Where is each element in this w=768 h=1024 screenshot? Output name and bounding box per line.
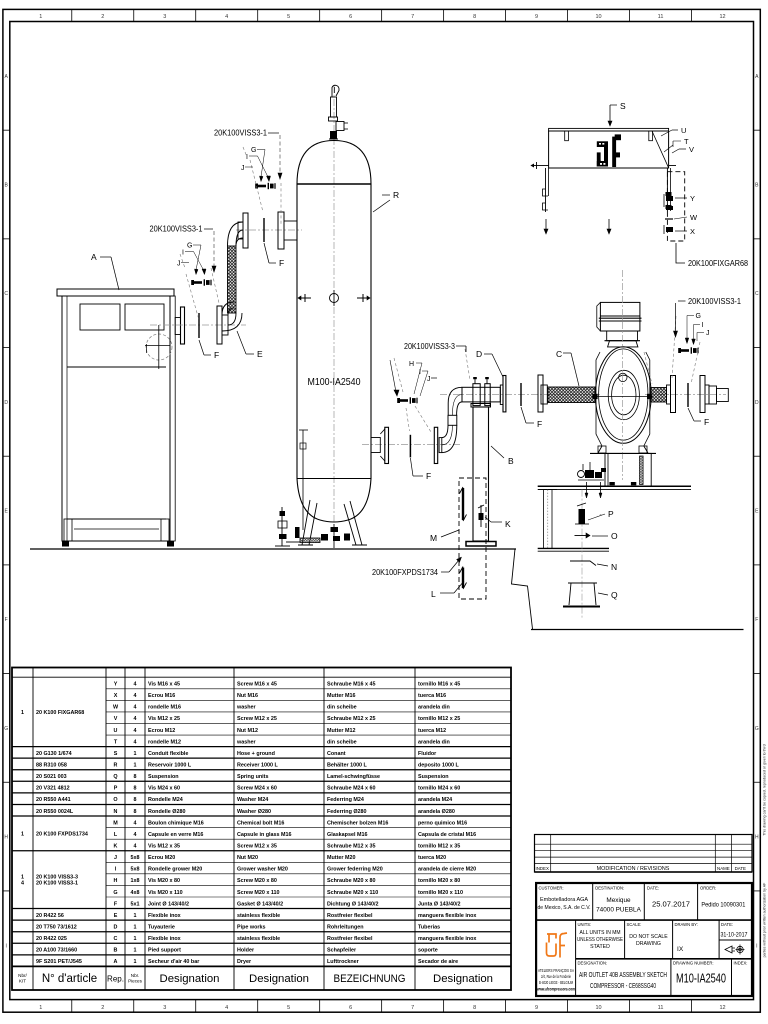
svg-text:Screw M20 x 110: Screw M20 x 110 <box>237 890 280 896</box>
svg-text:1: 1 <box>39 1005 42 1011</box>
svg-text:4: 4 <box>134 682 137 688</box>
svg-text:C: C <box>755 291 759 297</box>
svg-text:Suspension: Suspension <box>148 774 179 780</box>
svg-text:Nut M12: Nut M12 <box>237 728 258 734</box>
svg-text:Secador de aire: Secador de aire <box>418 959 458 965</box>
svg-text:tornillo M20 x 110: tornillo M20 x 110 <box>418 890 463 896</box>
svg-text:I: I <box>182 250 184 257</box>
svg-text:20 R422 025: 20 R422 025 <box>36 936 67 942</box>
S-pipe elbows <box>442 425 457 452</box>
panel side extension lines <box>534 165 549 167</box>
svg-text:Conant: Conant <box>327 751 346 757</box>
svg-text:8: 8 <box>134 786 137 792</box>
svg-text:H: H <box>114 878 118 884</box>
dashed detail box 20K100FXPDS1734 <box>459 478 486 599</box>
svg-text:Schapfeiler: Schapfeiler <box>327 948 357 954</box>
svg-text:B-4020 LIEGE - BELGIUM: B-4020 LIEGE - BELGIUM <box>539 980 573 985</box>
svg-text:Gasket Ø 143/40/2: Gasket Ø 143/40/2 <box>237 901 283 907</box>
svg-text:4: 4 <box>134 705 137 711</box>
svg-text:C: C <box>4 291 8 297</box>
svg-text:Grower washer M20: Grower washer M20 <box>237 867 288 873</box>
svg-text:G: G <box>4 726 8 732</box>
svg-text:washer: washer <box>236 705 256 711</box>
svg-text:SCALE:: SCALE: <box>627 922 642 927</box>
svg-text:Washer M24: Washer M24 <box>237 797 268 803</box>
svg-text:4: 4 <box>134 716 137 722</box>
svg-text:parties without prior written: parties without prior written authorizat… <box>762 882 766 958</box>
svg-text:Screw M24 x 60: Screw M24 x 60 <box>237 786 277 792</box>
svg-text:5x8: 5x8 <box>131 855 140 861</box>
svg-text:1: 1 <box>134 936 137 942</box>
svg-text:Holder: Holder <box>237 948 255 954</box>
svg-text:Capsula de cristal M16: Capsula de cristal M16 <box>418 832 476 838</box>
svg-text:74000 PUEBLA: 74000 PUEBLA <box>596 907 642 914</box>
roof panel hanger tabs <box>565 131 569 141</box>
svg-text:B: B <box>508 456 514 466</box>
svg-text:A: A <box>114 959 118 965</box>
svg-text:Receiver 1000 L: Receiver 1000 L <box>237 763 278 769</box>
svg-text:MODIFICATION / REVISIONS: MODIFICATION / REVISIONS <box>597 866 670 872</box>
svg-text:P: P <box>608 509 614 519</box>
discharge flange disc <box>667 385 671 404</box>
svg-text:J: J <box>114 855 117 861</box>
compressor casing outer ellipse <box>595 347 651 444</box>
svg-text:DRAWN BY:: DRAWN BY: <box>675 922 698 927</box>
svg-text:manguera flexible inox: manguera flexible inox <box>418 936 476 942</box>
axis compressor suction <box>440 394 600 396</box>
svg-text:W: W <box>690 213 698 222</box>
compressor vertical centre line <box>622 270 624 480</box>
svg-text:C: C <box>556 349 562 359</box>
svg-text:BEZEICHNUNG: BEZEICHNUNG <box>334 973 406 985</box>
compressor adapter <box>608 341 638 347</box>
svg-text:J: J <box>427 376 431 383</box>
bolt set near tank (VISS3-1) <box>258 185 266 188</box>
tank R shoulder weld line <box>297 183 371 185</box>
ground break step <box>512 549 533 629</box>
svg-text:X: X <box>114 693 118 699</box>
svg-text:N: N <box>114 809 118 815</box>
svg-text:Mutter M20: Mutter M20 <box>327 855 355 861</box>
parts list table <box>12 668 511 991</box>
svg-text:ORDER:: ORDER: <box>700 886 716 891</box>
svg-text:Vis M20 x 80: Vis M20 x 80 <box>148 878 180 884</box>
svg-text:C: C <box>114 936 118 942</box>
tank drain left standpipe <box>281 507 283 546</box>
svg-text:Pipe works: Pipe works <box>237 924 265 930</box>
svg-text:DRAWING NUMBER:: DRAWING NUMBER: <box>673 961 714 966</box>
svg-text:Screw M16 x 45: Screw M16 x 45 <box>237 682 277 688</box>
tank left nozzle flange <box>278 212 284 249</box>
designation cell <box>670 959 672 996</box>
svg-text:Pieces: Pieces <box>128 979 142 984</box>
tank right leg <box>344 501 362 545</box>
svg-text:DATE:: DATE: <box>647 886 659 891</box>
svg-text:11: 11 <box>658 14 664 20</box>
svg-text:Mutter M16: Mutter M16 <box>327 693 355 699</box>
svg-text:4: 4 <box>225 14 228 20</box>
svg-text:This drawing can't be copied,: This drawing can't be copied, reproduced… <box>762 744 766 835</box>
svg-text:Rostfreier flexibel: Rostfreier flexibel <box>327 936 373 942</box>
oil pump unit <box>585 470 594 478</box>
svg-text:6: 6 <box>349 14 352 20</box>
svg-text:UNITS:: UNITS: <box>578 922 592 927</box>
svg-text:www.afcompressors.com: www.afcompressors.com <box>536 987 575 992</box>
safety valve on tank top <box>331 97 337 117</box>
svg-text:10: 10 <box>596 14 602 20</box>
svg-text:tornillo M16 x 45: tornillo M16 x 45 <box>418 682 460 688</box>
svg-text:M: M <box>430 533 437 543</box>
svg-text:Vis M12 x 25: Vis M12 x 25 <box>148 716 180 722</box>
svg-text:DO NOT SCALE: DO NOT SCALE <box>629 934 668 940</box>
svg-text:1: 1 <box>21 831 24 837</box>
svg-text:V: V <box>689 145 694 154</box>
dashed leaders pipe D boltset <box>394 358 403 392</box>
title block frame <box>536 883 752 996</box>
svg-text:12: 12 <box>719 1005 725 1011</box>
svg-text:1: 1 <box>134 763 137 769</box>
svg-text:DESIGNATION:: DESIGNATION: <box>578 961 608 966</box>
svg-text:F: F <box>537 419 542 429</box>
elbow at hose E bottom <box>222 302 234 315</box>
svg-text:M100-IA2540: M100-IA2540 <box>308 376 361 388</box>
svg-text:din scheibe: din scheibe <box>327 705 357 711</box>
svg-text:Nbr/: Nbr/ <box>18 973 27 978</box>
tank right nozzle <box>371 438 380 453</box>
svg-text:rondelle M12: rondelle M12 <box>148 739 181 745</box>
svg-text:G: G <box>696 313 701 320</box>
svg-text:stainless flexible: stainless flexible <box>237 913 280 919</box>
svg-text:9F S201 PET/J545: 9F S201 PET/J545 <box>36 959 82 965</box>
svg-text:G: G <box>755 726 759 732</box>
pillar B top plate <box>471 404 491 408</box>
svg-text:1: 1 <box>39 14 42 20</box>
compressor gland details <box>592 394 597 399</box>
svg-text:20 K100 FXPDS1734: 20 K100 FXPDS1734 <box>36 831 88 837</box>
svg-text:5: 5 <box>287 1005 290 1011</box>
svg-text:Schraube M24 x 60: Schraube M24 x 60 <box>327 786 376 792</box>
svg-text:Y: Y <box>114 682 118 688</box>
svg-text:ALL UNITS IN MM: ALL UNITS IN MM <box>580 930 621 936</box>
svg-text:20 V321 4812: 20 V321 4812 <box>36 786 70 792</box>
svg-text:Boulon chimique M16: Boulon chimique M16 <box>148 820 204 826</box>
svg-text:B: B <box>114 948 118 954</box>
svg-text:rondelle M16: rondelle M16 <box>148 705 181 711</box>
svg-text:8: 8 <box>134 774 137 780</box>
left braided hose to compressor <box>547 386 549 388</box>
panel right leg <box>666 168 668 212</box>
svg-text:4: 4 <box>21 881 24 887</box>
dryer cabinet feet <box>62 541 69 547</box>
svg-text:H: H <box>409 361 414 368</box>
dryer cabinet windows <box>80 304 120 330</box>
svg-text:Ecrou M20: Ecrou M20 <box>148 855 175 861</box>
svg-text:31-10-2017: 31-10-2017 <box>721 933 749 939</box>
svg-text:8: 8 <box>473 14 476 20</box>
svg-text:20K100VISS3-1: 20K100VISS3-1 <box>150 225 204 234</box>
svg-text:8: 8 <box>473 1005 476 1011</box>
svg-text:Capsule en verre M16: Capsule en verre M16 <box>148 832 203 838</box>
svg-text:Tuyauterie: Tuyauterie <box>148 924 175 930</box>
svg-text:IX: IX <box>677 946 684 953</box>
svg-text:20 T750 73/1612: 20 T750 73/1612 <box>36 924 77 930</box>
AF logo on panel <box>597 141 608 147</box>
discharge end cap <box>709 386 717 404</box>
svg-text:20 K100 FIXGAR68: 20 K100 FIXGAR68 <box>36 710 84 716</box>
axis cabinet outlet <box>150 324 246 326</box>
svg-text:Schraube M20 x 110: Schraube M20 x 110 <box>327 890 378 896</box>
svg-text:4: 4 <box>134 843 137 849</box>
dryer cabinet A body <box>57 289 174 296</box>
svg-text:20K100FXPDS1734: 20K100FXPDS1734 <box>372 568 438 577</box>
svg-text:Lamel-schwingfüsse: Lamel-schwingfüsse <box>327 774 380 780</box>
svg-text:stainless flexible: stainless flexible <box>237 936 280 942</box>
svg-text:Q: Q <box>611 590 618 600</box>
svg-text:88 R310 058: 88 R310 058 <box>36 763 67 769</box>
svg-text:H: H <box>4 835 8 841</box>
svg-text:M: M <box>113 820 118 826</box>
svg-text:E: E <box>257 349 263 359</box>
svg-text:Designation: Designation <box>433 973 493 985</box>
lower ground line <box>531 629 744 631</box>
support H column <box>538 489 557 491</box>
svg-text:20 R422 56: 20 R422 56 <box>36 913 64 919</box>
svg-text:Rondelle M24: Rondelle M24 <box>148 797 183 803</box>
svg-text:Chemischer bolzen M16: Chemischer bolzen M16 <box>327 820 388 826</box>
svg-text:1: 1 <box>134 913 137 919</box>
svg-text:DRAWING: DRAWING <box>636 941 661 947</box>
svg-text:Screw M12 x 25: Screw M12 x 25 <box>237 716 277 722</box>
svg-text:Pied support: Pied support <box>148 948 181 954</box>
axis compressor discharge <box>645 394 726 396</box>
svg-text:20K100VISS3-1: 20K100VISS3-1 <box>214 129 268 138</box>
svg-text:UNLESS OTHERWISE: UNLESS OTHERWISE <box>577 937 623 943</box>
svg-text:arandela M24: arandela M24 <box>418 797 452 803</box>
svg-text:6: 6 <box>349 1005 352 1011</box>
svg-text:Reservoir 1000 L: Reservoir 1000 L <box>148 763 192 769</box>
bolt set near pipe D (VISS3-3) <box>400 399 408 402</box>
svg-text:Vis M24 x 60: Vis M24 x 60 <box>148 786 180 792</box>
svg-text:12: 12 <box>719 14 725 20</box>
svg-text:Nbr.: Nbr. <box>131 973 139 978</box>
svg-text:20 G130 1/674: 20 G130 1/674 <box>36 751 72 757</box>
svg-text:Rep.: Rep. <box>107 975 124 984</box>
svg-text:Federring Ø280: Federring Ø280 <box>327 809 367 815</box>
braided hose C <box>548 387 595 403</box>
svg-text:Mutter M12: Mutter M12 <box>327 728 355 734</box>
svg-text:Grower federring M20: Grower federring M20 <box>327 867 383 873</box>
svg-text:arandela de cierre M20: arandela de cierre M20 <box>418 867 476 873</box>
svg-text:8: 8 <box>134 797 137 803</box>
grout line N <box>570 561 596 566</box>
svg-text:G: G <box>251 147 256 154</box>
svg-text:STATED: STATED <box>590 944 610 950</box>
dryer cabinet base <box>67 518 166 520</box>
tank left leg <box>302 500 317 545</box>
svg-text:7: 7 <box>411 1005 414 1011</box>
pipe flange pairs on pillar pipe <box>473 384 480 406</box>
svg-text:X: X <box>690 227 695 236</box>
svg-text:tornillo M12 x 25: tornillo M12 x 25 <box>418 716 460 722</box>
gasket F at tank left nozzle <box>263 218 265 242</box>
svg-text:Nut M16: Nut M16 <box>237 693 258 699</box>
svg-text:DATE:: DATE: <box>721 922 733 927</box>
svg-text:1: 1 <box>134 751 137 757</box>
svg-text:I: I <box>419 369 421 376</box>
svg-text:G: G <box>187 243 192 250</box>
svg-text:1: 1 <box>134 924 137 930</box>
svg-text:Spring units: Spring units <box>237 774 268 780</box>
svg-text:I: I <box>246 154 248 161</box>
svg-text:perno quimico M16: perno quimico M16 <box>418 820 467 826</box>
svg-text:Fluidor: Fluidor <box>418 751 437 757</box>
svg-text:Designation: Designation <box>160 973 220 985</box>
glass capsule L <box>462 568 464 589</box>
svg-text:manguera flexible inox: manguera flexible inox <box>418 913 476 919</box>
svg-text:F: F <box>755 617 758 623</box>
bolt X <box>666 227 673 232</box>
AF logo orange <box>547 933 568 958</box>
svg-text:7: 7 <box>411 14 414 20</box>
roof panel S top bar <box>549 128 669 131</box>
svg-text:Ecrou M16: Ecrou M16 <box>148 693 175 699</box>
svg-text:arandela din: arandela din <box>418 705 450 711</box>
svg-text:Schraube M12 x 25: Schraube M12 x 25 <box>327 716 376 722</box>
compressor motor neck <box>607 331 638 341</box>
svg-text:Vis M12 x 35: Vis M12 x 35 <box>148 843 180 849</box>
svg-text:20 R550 A441: 20 R550 A441 <box>36 797 71 803</box>
svg-text:4x8: 4x8 <box>131 890 140 896</box>
svg-text:INDEX:: INDEX: <box>734 961 748 966</box>
dryer purge valve dashed circle <box>146 334 172 360</box>
svg-text:I: I <box>6 943 7 949</box>
left and right ruler letters <box>3 129 10 131</box>
svg-text:1: 1 <box>134 959 137 965</box>
svg-text:R: R <box>393 190 399 200</box>
svg-text:Vis M16 x 45: Vis M16 x 45 <box>148 682 180 688</box>
svg-text:AIR OUTLET 40B ASSEMBLY SKETCH: AIR OUTLET 40B ASSEMBLY SKETCH <box>579 970 667 979</box>
svg-text:20 A100 73/1660: 20 A100 73/1660 <box>36 948 77 954</box>
svg-text:Secheur d'air 40 bar: Secheur d'air 40 bar <box>148 959 200 965</box>
svg-text:Q: Q <box>113 774 117 780</box>
svg-text:Federring M24: Federring M24 <box>327 797 364 803</box>
svg-text:Rohrleitungen: Rohrleitungen <box>327 924 364 930</box>
tank level gauge pipe <box>302 430 304 530</box>
pillar B anchor bolt K <box>480 505 482 527</box>
svg-text:din scheibe: din scheibe <box>327 739 357 745</box>
svg-text:R: R <box>114 763 118 769</box>
svg-text:20K100VISS3-3: 20K100VISS3-3 <box>404 342 455 351</box>
svg-text:20 R550 0024L: 20 R550 0024L <box>36 809 74 815</box>
compressor baseframe box <box>605 453 651 486</box>
svg-text:20K100VISS3-1: 20K100VISS3-1 <box>688 297 742 306</box>
svg-text:Rondelle Ø280: Rondelle Ø280 <box>148 809 185 815</box>
svg-text:CUSTOMER:: CUSTOMER: <box>539 886 564 891</box>
svg-text:I: I <box>702 322 704 329</box>
panel left leg <box>545 168 547 212</box>
svg-text:9: 9 <box>535 14 538 20</box>
svg-text:Dichtung Ø 143/40/2: Dichtung Ø 143/40/2 <box>327 901 379 907</box>
svg-text:F: F <box>279 258 284 268</box>
svg-text:Joint Ø 143/40/2: Joint Ø 143/40/2 <box>148 901 189 907</box>
svg-text:5x8: 5x8 <box>131 867 140 873</box>
svg-text:Screw M20 x 80: Screw M20 x 80 <box>237 878 277 884</box>
dashed leaders tank boltset <box>250 160 263 212</box>
svg-text:E: E <box>114 913 118 919</box>
svg-text:Washer Ø280: Washer Ø280 <box>237 809 271 815</box>
flange at hose C inlet <box>538 375 543 412</box>
svg-text:D: D <box>4 400 8 406</box>
pillar B base plate <box>466 542 496 547</box>
svg-text:5x1: 5x1 <box>131 901 140 907</box>
flange pair at hose E inlet <box>217 306 222 344</box>
svg-text:Tuberias: Tuberias <box>418 924 440 930</box>
tank drain valves cluster <box>321 534 328 541</box>
svg-text:K: K <box>505 519 511 529</box>
discharge mating flange <box>700 376 705 413</box>
svg-text:Nut M20: Nut M20 <box>237 855 258 861</box>
svg-text:20K100FIXGAR68: 20K100FIXGAR68 <box>688 259 748 268</box>
pillar B column <box>473 407 489 541</box>
svg-text:2: 2 <box>101 14 104 20</box>
svg-text:tuerca M16: tuerca M16 <box>418 693 446 699</box>
svg-text:INDEX: INDEX <box>536 866 549 871</box>
svg-text:4: 4 <box>134 832 137 838</box>
compressor motor top box <box>600 302 640 331</box>
svg-text:5: 5 <box>287 14 290 20</box>
panel left leg arrow <box>545 219 547 231</box>
svg-text:20 K100 VISS3-1: 20 K100 VISS3-1 <box>36 881 78 887</box>
svg-text:F: F <box>426 471 431 481</box>
svg-text:N° d'article: N° d'article <box>42 973 97 985</box>
svg-text:Junta Ø 143/40/2: Junta Ø 143/40/2 <box>418 901 461 907</box>
dashed leaders right boltset <box>672 316 676 378</box>
title block row2 cells <box>575 920 577 996</box>
svg-text:3: 3 <box>163 1005 166 1011</box>
svg-text:4: 4 <box>134 728 137 734</box>
svg-text:L: L <box>431 589 436 599</box>
svg-text:Flexible inox: Flexible inox <box>148 913 181 919</box>
svg-text:10: 10 <box>596 1005 602 1011</box>
svg-text:11: 11 <box>658 1005 664 1011</box>
svg-text:4: 4 <box>134 739 137 745</box>
svg-text:DATE: DATE <box>735 866 746 871</box>
chemical anchor M <box>462 488 464 520</box>
svg-text:Flexible inox: Flexible inox <box>148 936 181 942</box>
anchor bolt P <box>581 490 583 618</box>
svg-text:soporte: soporte <box>418 948 438 954</box>
svg-text:Vis M20 x 110: Vis M20 x 110 <box>148 890 183 896</box>
svg-text:A: A <box>91 252 97 262</box>
flange pair at hose E outlet <box>238 222 243 239</box>
flange at S-pipe inlet <box>434 427 437 463</box>
svg-text:P: P <box>114 786 118 792</box>
compressor casing inner ellipses <box>608 370 639 419</box>
svg-text:Hose + ground: Hose + ground <box>237 751 275 757</box>
svg-text:9: 9 <box>535 1005 538 1011</box>
tank drain bottom outlet <box>333 524 335 548</box>
roof panel S body <box>549 131 669 168</box>
svg-text:COMPRESSOR - CE68SSG40: COMPRESSOR - CE68SSG40 <box>590 981 656 990</box>
svg-text:Conduit flexible: Conduit flexible <box>148 751 188 757</box>
ground line under machines <box>30 548 516 550</box>
revision table <box>535 835 753 873</box>
svg-text:Dryer: Dryer <box>237 959 252 965</box>
pipe D flange <box>500 385 503 405</box>
svg-text:I: I <box>756 943 757 949</box>
bolt set near dryer (VISS3-1) <box>194 281 202 284</box>
svg-text:washer: washer <box>236 739 256 745</box>
